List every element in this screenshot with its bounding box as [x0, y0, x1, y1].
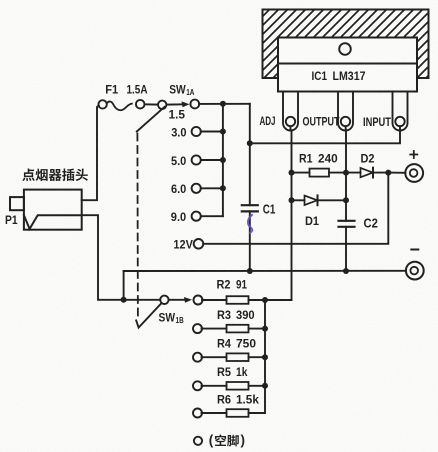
wire SW1A bus vertical — [222, 104, 224, 216]
node: bus 5.0 junction — [220, 157, 226, 163]
switch SW1A pole — [158, 101, 166, 109]
capacitor C1 top lead — [249, 143, 251, 205]
wire contact9.0 to bus corner — [201, 215, 223, 217]
plug P1 body — [24, 190, 82, 230]
resistor R1 body — [310, 169, 330, 177]
plus sign — [410, 154, 417, 156]
contact 12V circle — [194, 239, 204, 249]
switch SW1B pole — [160, 296, 168, 304]
diode D1 cathode bar — [317, 195, 319, 205]
contact R4 circle — [193, 353, 202, 362]
node: bus top junction — [220, 101, 226, 107]
ground rail — [124, 270, 406, 272]
resistor R2 leads — [202, 299, 227, 301]
blue ink smudge near C1 — [248, 214, 253, 233]
wire contact1.5 to bus — [199, 103, 250, 105]
IC1 pin 1 terminal circle — [286, 117, 295, 126]
node: input line junction — [247, 140, 253, 146]
resistor R3 leads — [202, 328, 227, 330]
resistor R6 body — [227, 409, 249, 417]
wire P1 tip to fuse — [82, 106, 99, 201]
resistor R1 leads — [292, 172, 310, 174]
node: bus 6.0 junction — [220, 185, 226, 191]
contact 9.0 circle — [192, 212, 201, 221]
IC1 mounting hole — [339, 43, 351, 55]
wire ADJ pin down to R2 row — [265, 126, 292, 300]
node: R5 bus junction — [262, 383, 268, 389]
wire bus corner down to input line — [249, 104, 251, 144]
switch SW1B wiper arrow — [169, 299, 186, 301]
resistor R2 body — [227, 296, 249, 304]
node: R4 bus junction — [262, 354, 268, 360]
fuse F1 left terminal — [98, 100, 106, 108]
wire 12V direct to + rail — [203, 173, 388, 244]
ganged switch link (dashed) — [136, 134, 139, 317]
node: ADJ/R1 junction — [289, 170, 295, 176]
IC1 pin 2 outline (OUTPUT) — [338, 92, 353, 131]
IC1 pin 3 outline (INPUT) — [393, 92, 408, 131]
diode D2 triangle — [361, 168, 373, 177]
switch SW1A lever — [137, 107, 165, 132]
IC1 pin 3 terminal circle — [395, 117, 404, 126]
plug P1 inner contact line with notch — [24, 215, 82, 229]
IC1 pin 2 terminal circle — [341, 117, 350, 126]
IC1 divider line — [278, 63, 417, 65]
diode D2 cathode bar — [372, 168, 374, 178]
capacitor C2 bottom lead — [345, 227, 347, 271]
node: D2 output junction — [385, 170, 391, 176]
contact R2 circle — [194, 296, 203, 305]
node: R2 bus junction — [262, 297, 268, 303]
terminal + inner — [410, 169, 418, 177]
node: R3 bus junction — [262, 326, 268, 332]
resistor R5 body — [227, 382, 249, 390]
contact R3 circle — [193, 324, 202, 333]
diode D1 triangle — [305, 196, 318, 205]
contact R5 circle — [193, 381, 202, 390]
switch SW1B lever — [136, 303, 161, 327]
node: bus 3.0 junction — [220, 129, 226, 135]
wire contact3.0 to bus — [201, 131, 223, 133]
terminal - inner — [410, 267, 418, 275]
diode D2 leads — [346, 172, 361, 174]
IC1 pin 1 outline (ADJ) — [283, 92, 298, 131]
contact R6 circle — [193, 409, 202, 418]
terminal + outer — [405, 164, 423, 182]
contact 1.5 circle — [190, 100, 199, 109]
wire to + terminal — [388, 172, 405, 174]
node: OUT/D1 junction — [343, 197, 349, 203]
label: 点烟器插头 (cigarette lighter plug) — [22, 168, 88, 181]
resistor R3 body — [227, 325, 249, 333]
wire contact6.0 to bus — [201, 187, 223, 189]
node: ground branch junction — [121, 297, 127, 303]
node: OUT/R1 junction — [343, 170, 349, 176]
wire resistor bus vertical — [264, 300, 266, 413]
resistor R5 leads — [202, 385, 227, 387]
wire fuse to SW1A pole — [145, 103, 158, 105]
capacitor C1 bottom lead — [249, 211, 251, 271]
capacitor C1 plates — [242, 204, 258, 206]
IC1 LM317 body — [278, 38, 417, 92]
node: ADJ/D1 junction — [289, 197, 295, 203]
heatsink (hatched) — [263, 10, 429, 79]
resistor R4 leads — [202, 356, 227, 358]
terminal - outer — [406, 262, 424, 280]
fuse F1 right terminal — [136, 100, 145, 109]
unused contact circle — [194, 437, 202, 445]
wire OUTPUT pin down — [345, 126, 348, 221]
switch SW1A wiper arrow — [167, 103, 184, 105]
contact 6.0 circle — [192, 184, 201, 193]
contact 3.0 circle — [192, 127, 201, 136]
plug P1 tip contact tab — [10, 197, 24, 210]
capacitor C2 plates — [339, 220, 355, 222]
diode D1 leads — [292, 199, 305, 201]
wire contact5.0 to bus — [201, 159, 223, 161]
node: C2 ground junction — [343, 268, 349, 274]
wire P1 shell to SW1B — [82, 215, 161, 300]
node: C1 ground junction — [247, 268, 253, 274]
wire rail drop — [123, 271, 125, 300]
minus sign — [411, 249, 418, 251]
contact 5.0 circle — [192, 155, 201, 164]
resistor R6 leads — [202, 412, 227, 414]
wire input line to INPUT pin — [250, 126, 400, 143]
resistor R4 body — [227, 353, 249, 361]
fuse F1 element — [107, 101, 132, 110]
label: (空脚) empty pin — [215, 434, 239, 446]
